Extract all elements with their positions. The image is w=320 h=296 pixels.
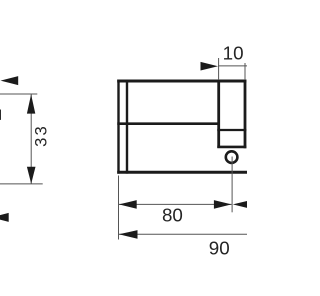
arrow 33 down (27, 167, 36, 184)
cam section divider (217, 81, 220, 148)
extension line through screw hole (231, 157, 233, 213)
cylinder right edge (244, 80, 247, 149)
arrow 80 left (119, 200, 137, 209)
cam bottom line (217, 146, 246, 149)
dim line 33 vertical (30, 94, 32, 184)
extension line left of body (118, 176, 120, 240)
svg-text:33: 33 (32, 124, 51, 147)
arrow left bottom cropped (0, 213, 9, 222)
cam ring inner line (217, 129, 246, 131)
dim line 90 (119, 233, 247, 235)
dim line 80 (119, 203, 232, 205)
dim line 33 bottom (0, 183, 43, 185)
cropped label fragment (0, 109, 1, 120)
extension line cylinder end (244, 63, 246, 80)
arrow 10 bottom (233, 200, 251, 209)
cylinder body bottom edge (117, 171, 247, 174)
dim line 10 top (218, 65, 247, 67)
svg-text:80: 80 (162, 205, 183, 226)
cylinder body top edge (117, 80, 246, 83)
arrow 10 top (201, 62, 219, 71)
svg-text:10: 10 (223, 43, 244, 64)
svg-text:90: 90 (209, 238, 230, 259)
arrow 90 left (119, 230, 138, 239)
fixing screw hole (226, 151, 238, 163)
extension line cam start (218, 58, 220, 80)
cylinder face plate line (126, 80, 128, 174)
dim line 33 top (0, 93, 37, 95)
arrow 33 up (27, 94, 35, 113)
arrow left top cropped (1, 76, 19, 85)
barrel flange junction line (117, 122, 220, 125)
cylinder body left edge (117, 80, 119, 174)
arrow 80 right (214, 200, 232, 209)
